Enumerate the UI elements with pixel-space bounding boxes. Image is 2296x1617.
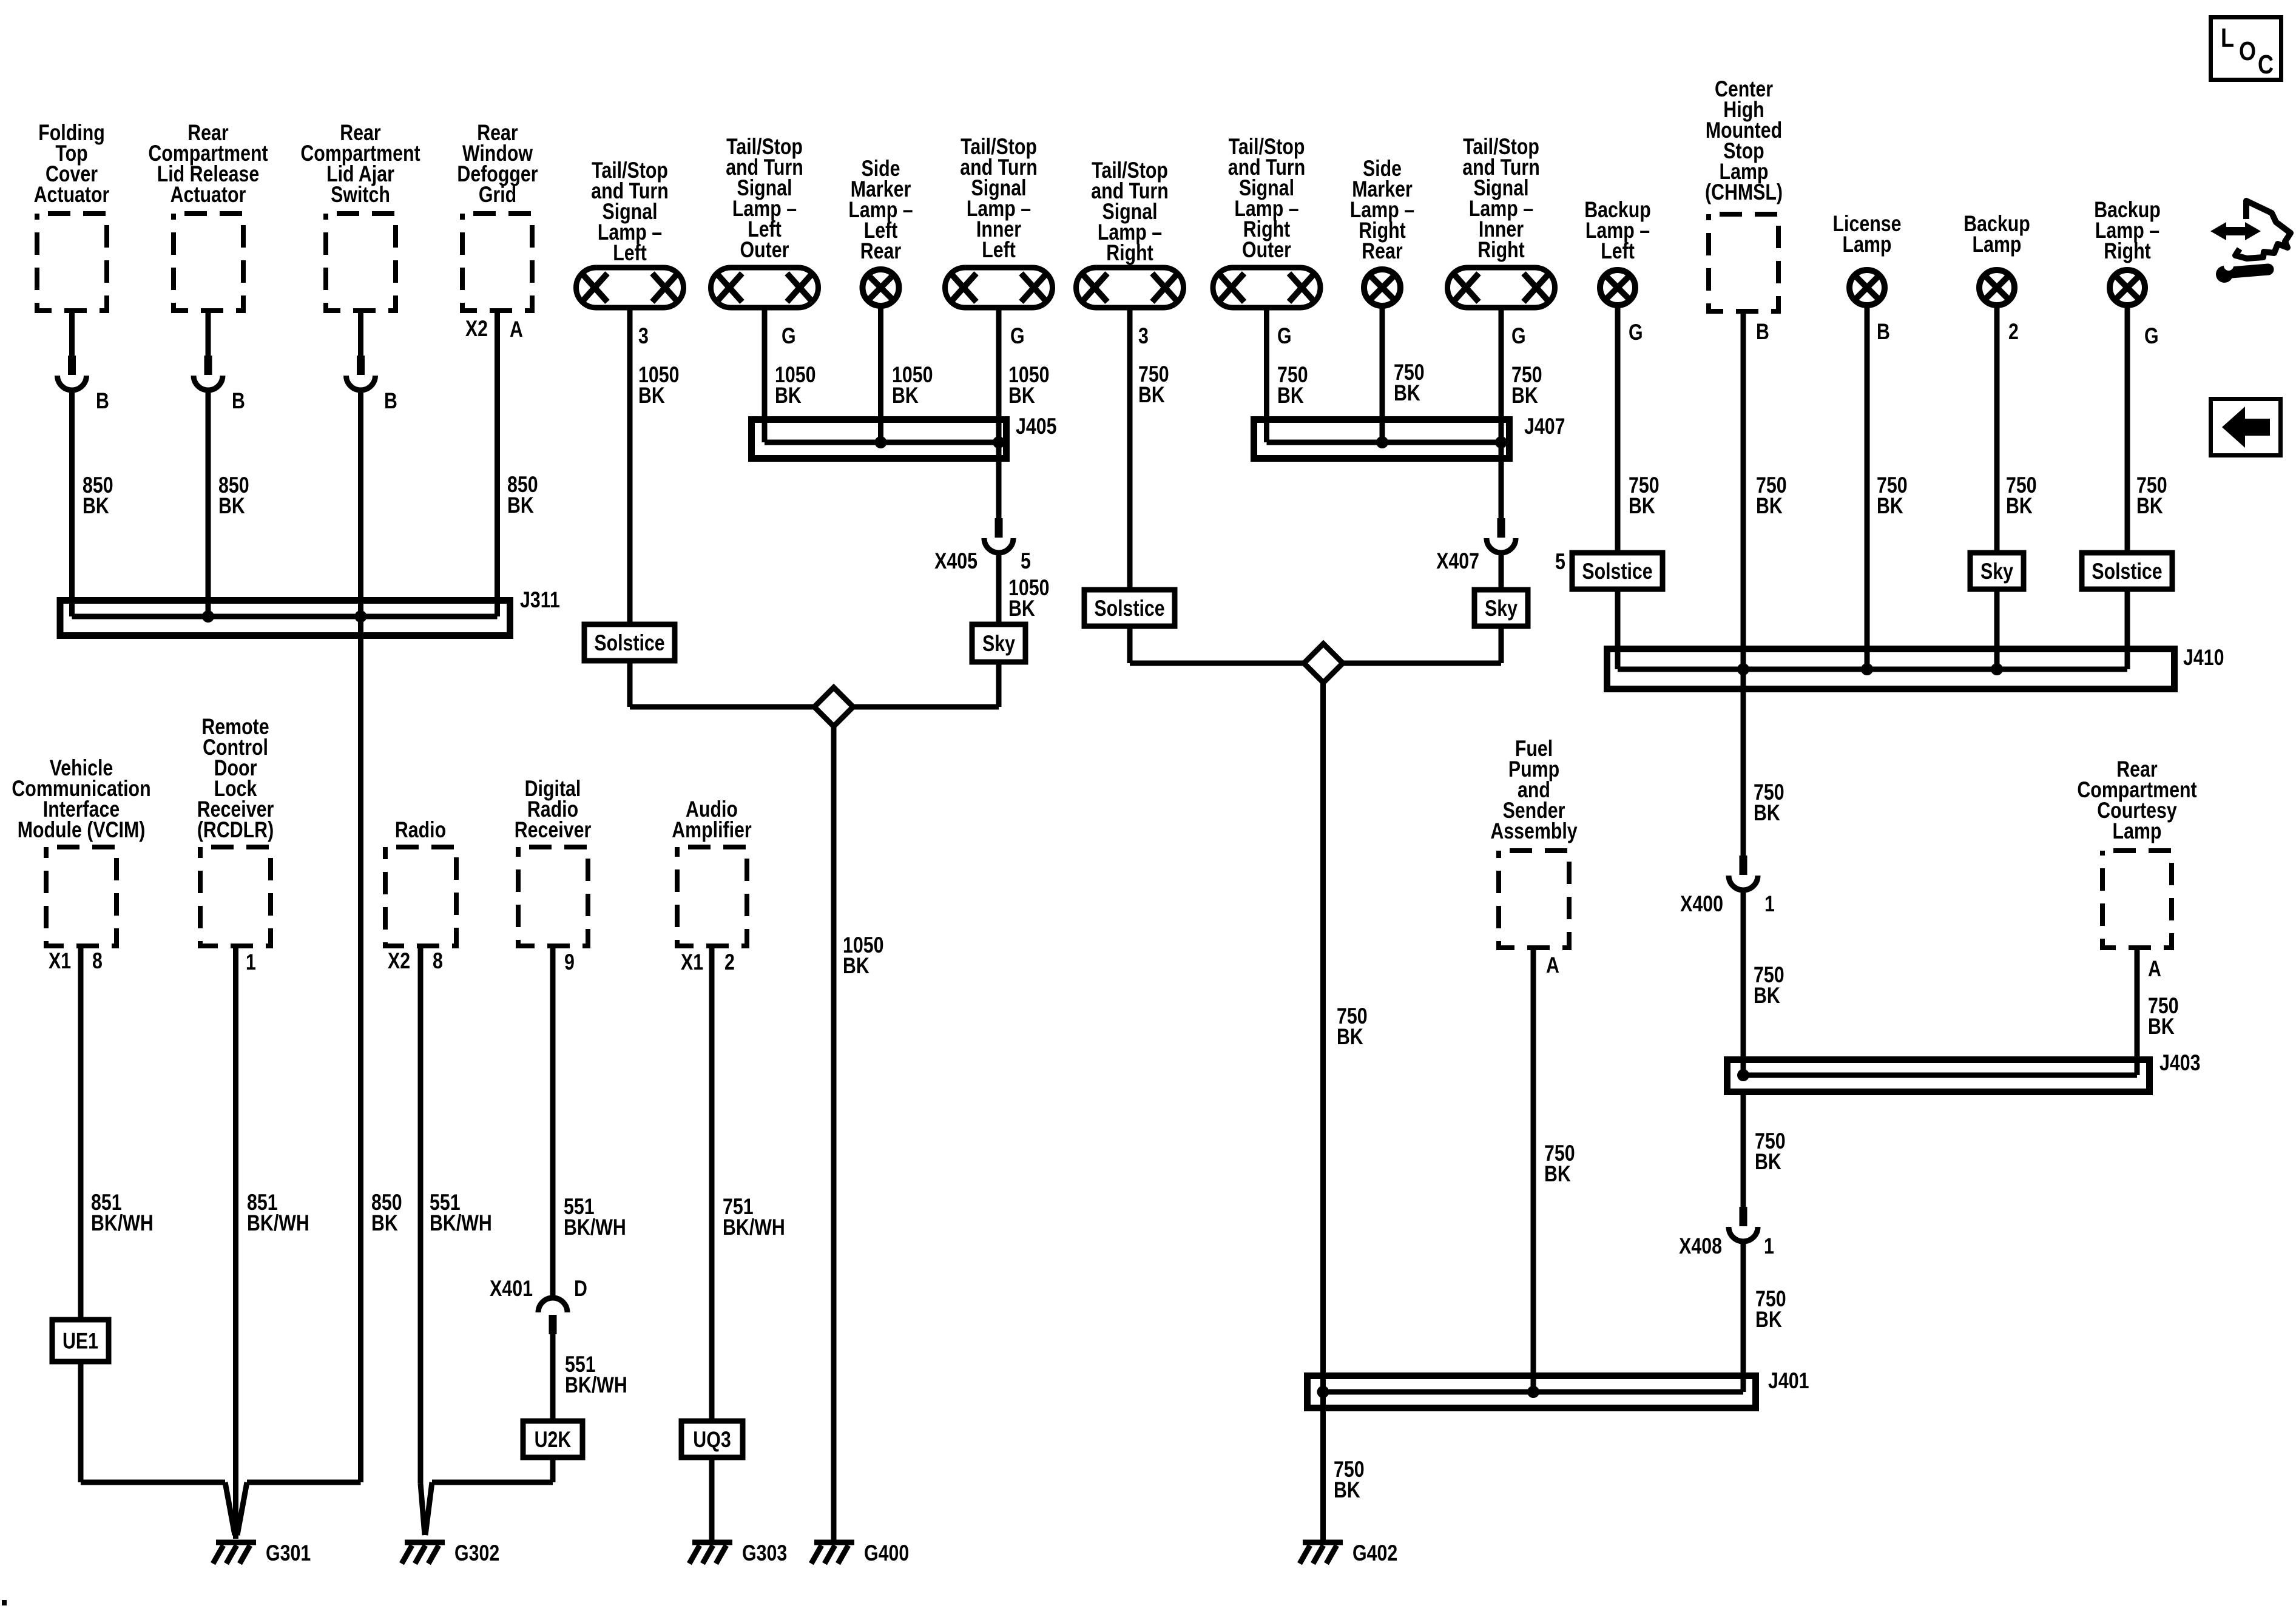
pin G (Inner Right) bbox=[1511, 323, 1526, 349]
wire: 850 BK from Rear Window Defogger Grid to J311 bbox=[498, 311, 538, 616]
svg-text:BK: BK bbox=[1334, 1477, 1360, 1503]
stray mark (bottom-left) bbox=[2, 1600, 7, 1605]
icon: left arrow box bbox=[2211, 399, 2281, 456]
junction bus J410 bbox=[1607, 645, 2224, 689]
pin 3 (Tail/Stop Lamp Left) bbox=[638, 323, 649, 349]
junction bus J401 bbox=[1308, 1368, 1809, 1408]
svg-text:Outer: Outer bbox=[740, 237, 789, 263]
svg-text:X1: X1 bbox=[681, 950, 703, 975]
wire: 750 BK from X408 to J401 bbox=[1743, 1241, 1786, 1392]
option box Sky (inner left lamp) bbox=[972, 624, 1025, 662]
pin labels X1 / 2 (Audio Amplifier) bbox=[681, 950, 735, 975]
svg-text:BK: BK bbox=[2136, 493, 2163, 519]
wire: 551 BK/WH from Digital Radio Receiver to X401 bbox=[553, 946, 626, 1298]
pin G (Right Outer) bbox=[1277, 323, 1292, 349]
component: Rear Window Defogger Grid bbox=[457, 120, 538, 311]
lamp: License Lamp bbox=[1833, 211, 1902, 305]
component: Remote Control Door Lock Receiver (RCDLR) bbox=[197, 714, 274, 946]
wire: 751 BK/WH from Audio Amplifier to UQ3 bbox=[712, 946, 785, 1421]
svg-text:Rear: Rear bbox=[1362, 238, 1402, 264]
node: J405 dot (inner left wire) bbox=[993, 436, 1005, 448]
node: J311 junction dot (Lid Ajar wire) bbox=[355, 610, 367, 623]
svg-text:5: 5 bbox=[1021, 549, 1031, 574]
svg-text:1: 1 bbox=[1764, 1234, 1774, 1259]
svg-text:Solstice: Solstice bbox=[1094, 596, 1164, 621]
wire: 750 BK from License Lamp to J410 bbox=[1867, 305, 1908, 669]
pin G (Backup Lamp Left) bbox=[1629, 320, 1643, 345]
svg-text:Rear: Rear bbox=[860, 238, 901, 264]
svg-text:BK: BK bbox=[1754, 983, 1780, 1008]
component: Radio bbox=[385, 817, 456, 946]
wire: 750 BK from Side Marker Right Rear to J407 bbox=[1382, 306, 1425, 442]
node: J401 dot (fuel pump wire) bbox=[1527, 1386, 1539, 1398]
svg-text:A: A bbox=[1546, 953, 1559, 978]
svg-text:BK/WH: BK/WH bbox=[91, 1210, 154, 1236]
svg-text:G400: G400 bbox=[864, 1541, 909, 1566]
pin labels X2 / A (Rear Window Defogger Grid) bbox=[465, 316, 523, 342]
svg-text:3: 3 bbox=[638, 323, 649, 349]
lamp: Side Marker Lamp - Left Rear bbox=[848, 156, 913, 306]
svg-text:Receiver: Receiver bbox=[515, 817, 591, 843]
svg-text:G: G bbox=[1629, 320, 1643, 345]
lamp: Tail/Stop and Turn Signal Lamp - Inner Left bbox=[945, 134, 1053, 308]
component: Digital Radio Receiver bbox=[515, 776, 591, 946]
wire: 1050 BK from Side Marker Left Rear to J405 bbox=[881, 306, 933, 442]
svg-text:BK: BK bbox=[1544, 1161, 1571, 1187]
pin labels X1 / 8 (VCIM) bbox=[49, 948, 103, 974]
pin G (Inner Left) bbox=[1010, 323, 1025, 349]
svg-text:Lamp: Lamp bbox=[1843, 232, 1892, 257]
wire: 850 BK from Lid Ajar Switch through J311 to G301 bbox=[237, 390, 402, 1535]
svg-text:Actuator: Actuator bbox=[34, 182, 110, 208]
svg-text:BK: BK bbox=[1756, 493, 1783, 519]
pin 1 (RCDLR) bbox=[246, 950, 256, 975]
svg-text:Sky: Sky bbox=[1485, 596, 1518, 621]
svg-text:B: B bbox=[1877, 319, 1890, 345]
in-line connector X401 pin D bbox=[490, 1276, 587, 1334]
node: J405 dot (side marker wire) bbox=[875, 436, 887, 448]
wire: 750 BK from Tail/Stop Lamp Right to Solstice option bbox=[1130, 310, 1169, 590]
svg-text:X2: X2 bbox=[388, 948, 410, 974]
svg-text:BK: BK bbox=[1511, 383, 1538, 408]
svg-text:J407: J407 bbox=[1524, 414, 1565, 439]
node: J410 dot (CHMSL wire) bbox=[1737, 663, 1749, 675]
wire: X407 to Sky option bbox=[1499, 553, 1504, 590]
svg-text:O: O bbox=[2239, 36, 2256, 66]
svg-text:9: 9 bbox=[564, 950, 575, 975]
wire: Rear Compartment Lid Release Actuator lead bbox=[206, 311, 211, 356]
svg-text:Lamp: Lamp bbox=[2113, 819, 2162, 844]
svg-text:BK/WH: BK/WH bbox=[565, 1372, 627, 1398]
wire: 750 BK from Fuel Pump to J401 bbox=[1533, 948, 1575, 1392]
wire: Folding Top Cover Actuator lead bbox=[69, 311, 75, 356]
svg-text:8: 8 bbox=[92, 948, 103, 974]
in-line connector X405 pin 5 bbox=[934, 518, 1031, 574]
svg-text:B: B bbox=[96, 388, 109, 414]
svg-text:(RCDLR): (RCDLR) bbox=[197, 817, 274, 843]
svg-text:J410: J410 bbox=[2183, 645, 2224, 670]
lamp: Tail/Stop and Turn Signal Lamp - Inner Right bbox=[1448, 134, 1555, 308]
svg-text:5: 5 bbox=[1555, 549, 1565, 575]
ground G301 bbox=[213, 1541, 311, 1566]
svg-text:B: B bbox=[384, 388, 397, 414]
option box Solstice (left tail lamp) bbox=[584, 624, 675, 661]
wire: 750 BK from Courtesy Lamp to J403 bbox=[2137, 948, 2179, 1075]
wire: 750 BK from Backup Lamp Right to Solstice option bbox=[2127, 305, 2167, 553]
svg-text:X408: X408 bbox=[1679, 1234, 1722, 1259]
svg-text:Solstice: Solstice bbox=[2092, 559, 2162, 584]
option box Solstice (backup lamp right) bbox=[2082, 553, 2172, 589]
wire: Sky option to splice diamond (right) bbox=[1343, 626, 1501, 663]
svg-text:BK: BK bbox=[1337, 1024, 1363, 1050]
ground G303 bbox=[689, 1541, 787, 1566]
svg-text:BK: BK bbox=[775, 383, 802, 408]
junction bus J403 bbox=[1727, 1050, 2201, 1092]
wire: 551 BK/WH from Radio to G302 bbox=[420, 946, 492, 1535]
component: Vehicle Communication Interface Module (VCIM) bbox=[12, 755, 150, 946]
lamp: Backup Lamp - Left bbox=[1584, 197, 1651, 305]
svg-text:BK: BK bbox=[507, 493, 534, 518]
svg-text:J405: J405 bbox=[1016, 414, 1056, 439]
svg-text:BK: BK bbox=[1629, 493, 1655, 519]
svg-text:G: G bbox=[782, 323, 796, 349]
svg-text:X1: X1 bbox=[49, 948, 71, 974]
node: J401 dot (diamond wire) bbox=[1317, 1386, 1329, 1398]
svg-text:X400: X400 bbox=[1680, 891, 1723, 917]
lamp: Backup Lamp - Right bbox=[2094, 197, 2161, 305]
svg-text:3: 3 bbox=[1138, 323, 1149, 349]
wire: 1050 BK from X405 to Sky option bbox=[999, 553, 1049, 624]
connector pin B (Rear Compartment Lid Ajar Switch) bbox=[346, 356, 397, 414]
wire: 750 BK from Inner Right lamp through J407 to X407 bbox=[1501, 310, 1542, 518]
svg-text:X2: X2 bbox=[465, 316, 488, 342]
svg-text:Right: Right bbox=[1477, 237, 1524, 263]
node: J407 dot (inner right wire) bbox=[1495, 436, 1507, 448]
svg-text:X405: X405 bbox=[934, 549, 977, 574]
svg-text:2: 2 bbox=[724, 950, 735, 975]
svg-text:Left: Left bbox=[1601, 238, 1635, 264]
option box UE1 bbox=[52, 1320, 109, 1362]
svg-text:Left: Left bbox=[613, 240, 647, 266]
svg-text:BK: BK bbox=[1277, 383, 1304, 408]
wire: 750 BK from right diamond through J401 to G402 bbox=[1323, 683, 1368, 1540]
svg-text:Right: Right bbox=[2104, 238, 2150, 264]
svg-text:Switch: Switch bbox=[331, 182, 390, 208]
pin 2 (Backup Lamp) bbox=[2008, 319, 2019, 345]
svg-text:Actuator: Actuator bbox=[171, 182, 246, 208]
in-line connector X408 pin 1 bbox=[1679, 1207, 1774, 1259]
lamp: Backup Lamp (middle) bbox=[1963, 211, 2030, 305]
in-line connector X407 pin 5 bbox=[1436, 518, 1565, 575]
wire: 850 BK from Lid Release Actuator to J311 bbox=[208, 390, 249, 616]
svg-text:Sky: Sky bbox=[982, 631, 1015, 657]
svg-text:G: G bbox=[2144, 323, 2159, 349]
pin B (CHMSL) bbox=[1756, 319, 1769, 345]
icon: body repair symbol (double arrow, body outline, wrench) bbox=[2210, 201, 2291, 283]
svg-text:G: G bbox=[1277, 323, 1292, 349]
lamp: Tail/Stop and Turn Signal Lamp - Right bbox=[1076, 158, 1184, 308]
svg-text:BK/WH: BK/WH bbox=[723, 1215, 785, 1240]
svg-text:BK: BK bbox=[1877, 493, 1903, 519]
svg-text:A: A bbox=[510, 317, 523, 342]
option box Solstice (right tail lamp) bbox=[1084, 590, 1175, 626]
svg-text:Left: Left bbox=[982, 237, 1016, 263]
svg-text:BK: BK bbox=[2148, 1014, 2175, 1039]
junction bus J405 bbox=[752, 414, 1057, 458]
svg-text:UE1: UE1 bbox=[62, 1329, 98, 1354]
node: J407 dot (side marker wire) bbox=[1376, 436, 1388, 448]
svg-text:(CHMSL): (CHMSL) bbox=[1705, 180, 1783, 205]
pin 9 (Digital Radio Receiver) bbox=[564, 950, 575, 975]
wire: Sky option to J410 (backup lamp) bbox=[1994, 589, 2000, 669]
svg-text:D: D bbox=[574, 1276, 587, 1301]
component: Rear Compartment Courtesy Lamp bbox=[2077, 757, 2196, 948]
wire: 551 BK/WH from X401 to U2K bbox=[553, 1334, 627, 1421]
svg-text:BK: BK bbox=[1138, 382, 1165, 408]
lamp: Tail/Stop and Turn Signal Lamp - Left bbox=[576, 158, 684, 308]
connector pin B (Rear Compartment Lid Release Actuator) bbox=[194, 356, 245, 414]
component: Rear Compartment Lid Release Actuator bbox=[148, 120, 268, 311]
component: Center High Mounted Stop Lamp (CHMSL) bbox=[1705, 76, 1783, 311]
svg-text:Outer: Outer bbox=[1242, 237, 1291, 263]
wire: 1050 BK from Inner Left lamp through J405 to X405 bbox=[999, 310, 1049, 518]
svg-text:U2K: U2K bbox=[535, 1427, 572, 1453]
pin G (Left Outer) bbox=[782, 323, 796, 349]
svg-text:B: B bbox=[232, 388, 245, 414]
component: Folding Top Cover Actuator bbox=[34, 120, 110, 311]
pin 3 (Tail/Stop Lamp Right) bbox=[1138, 323, 1149, 349]
wire: U2K to G302 bbox=[425, 1457, 553, 1535]
option box Sky (inner right lamp) bbox=[1474, 590, 1528, 626]
connector pin B (Folding Top Cover Actuator) bbox=[58, 356, 109, 414]
svg-text:BK/WH: BK/WH bbox=[247, 1210, 309, 1236]
svg-text:BK: BK bbox=[2006, 493, 2033, 519]
wire: Sky option to splice diamond (left) bbox=[853, 662, 999, 707]
svg-text:BK/WH: BK/WH bbox=[430, 1210, 492, 1236]
splice diamond (right group) bbox=[1304, 644, 1343, 683]
node: J403 dot (CHMSL wire) bbox=[1737, 1069, 1749, 1081]
svg-text:BK: BK bbox=[638, 383, 665, 408]
svg-text:BK/WH: BK/WH bbox=[564, 1215, 626, 1240]
svg-text:BK: BK bbox=[892, 383, 919, 408]
svg-text:BK: BK bbox=[1394, 380, 1420, 406]
junction bus J311 bbox=[60, 587, 560, 635]
svg-text:BK: BK bbox=[1755, 1149, 1781, 1175]
wire: 750 BK from CHMSL through J410 to X400 bbox=[1743, 311, 1787, 856]
svg-text:8: 8 bbox=[433, 948, 443, 974]
ground G402 bbox=[1300, 1541, 1397, 1566]
svg-text:G302: G302 bbox=[454, 1541, 499, 1566]
wire: 750 BK from Backup Lamp to Sky option bbox=[1997, 305, 2037, 553]
svg-text:Lamp: Lamp bbox=[1973, 232, 2022, 257]
wire: UE1 to G301 bbox=[81, 1362, 235, 1535]
svg-text:Solstice: Solstice bbox=[1582, 559, 1652, 584]
wire: 1050 BK from left diamond to G400 bbox=[834, 726, 883, 1540]
pin B (License Lamp) bbox=[1877, 319, 1890, 345]
wire: Solstice option to J410 (right end) bbox=[2125, 589, 2130, 669]
icon: LOC reference box bbox=[2211, 18, 2281, 80]
pin A (Rear Compartment Courtesy Lamp) bbox=[2148, 956, 2161, 982]
pin G (Backup Lamp Right) bbox=[2144, 323, 2159, 349]
option box U2K bbox=[523, 1421, 582, 1457]
svg-text:BK: BK bbox=[1755, 1307, 1782, 1332]
svg-text:BK: BK bbox=[371, 1210, 398, 1236]
svg-text:G303: G303 bbox=[742, 1541, 787, 1566]
svg-text:UQ3: UQ3 bbox=[693, 1427, 731, 1453]
svg-text:J403: J403 bbox=[2159, 1050, 2200, 1076]
node: J410 dot (backup lamp wire) bbox=[1991, 663, 2003, 675]
pin A (Fuel Pump and Sender Assembly) bbox=[1546, 953, 1559, 978]
wire: 750 BK from X400 to J403 bbox=[1743, 890, 1784, 1075]
svg-text:BK: BK bbox=[1008, 596, 1035, 621]
splice diamond (left group) bbox=[814, 687, 853, 726]
svg-text:X401: X401 bbox=[490, 1276, 533, 1301]
node: J410 dot (license lamp wire) bbox=[1861, 663, 1873, 675]
svg-text:G: G bbox=[1511, 323, 1526, 349]
option box UQ3 bbox=[681, 1421, 743, 1457]
svg-text:Grid: Grid bbox=[479, 182, 516, 208]
lamp: Tail/Stop and Turn Signal Lamp - Left Outer bbox=[711, 134, 819, 308]
component: Fuel Pump and Sender Assembly bbox=[1490, 736, 1577, 948]
wire: right tail lamp to splice diamond bbox=[1130, 626, 1304, 663]
ground G400 bbox=[811, 1541, 909, 1566]
svg-text:X407: X407 bbox=[1436, 549, 1479, 574]
option box Solstice (backup lamp left) bbox=[1572, 553, 1663, 589]
svg-text:G402: G402 bbox=[1352, 1541, 1397, 1566]
wire: 750 BK from Right Outer lamp to J407 bbox=[1267, 310, 1308, 442]
lamp: Tail/Stop and Turn Signal Lamp - Right Outer bbox=[1213, 134, 1320, 308]
wire: 850 BK from Folding Top Cover Actuator to J311 bbox=[72, 390, 113, 616]
wire: 750 BK from Backup Lamp Left to Solstice option bbox=[1618, 305, 1660, 553]
svg-text:C: C bbox=[2258, 50, 2274, 79]
wire: 750 BK from J403 to X408 bbox=[1743, 1095, 1786, 1207]
svg-text:L: L bbox=[2221, 23, 2234, 53]
svg-text:Module (VCIM): Module (VCIM) bbox=[18, 817, 146, 843]
ground G302 bbox=[402, 1541, 499, 1566]
wire: 1050 BK from Tail/Stop Lamp Left to Solstice option bbox=[630, 310, 679, 624]
wire: Solstice option to J410 bbox=[1615, 589, 1621, 669]
svg-text:BK: BK bbox=[218, 493, 245, 519]
lamp: Side Marker Lamp - Right Rear bbox=[1350, 156, 1414, 306]
option box Sky (backup lamp) bbox=[1970, 553, 2024, 589]
svg-text:BK: BK bbox=[1008, 383, 1035, 408]
wire: 1050 BK from Left Outer lamp to J405 bbox=[765, 310, 815, 442]
svg-text:Amplifier: Amplifier bbox=[672, 817, 751, 843]
svg-text:Radio: Radio bbox=[395, 817, 446, 843]
wire: Rear Compartment Lid Ajar Switch lead bbox=[358, 311, 363, 356]
in-line connector X400 pin 1 bbox=[1680, 856, 1775, 917]
svg-text:B: B bbox=[1756, 319, 1769, 345]
pin labels X2 / 8 (Radio) bbox=[388, 948, 443, 974]
svg-text:2: 2 bbox=[2008, 319, 2019, 345]
svg-text:G301: G301 bbox=[266, 1541, 311, 1566]
junction bus J407 bbox=[1254, 414, 1565, 458]
wire: left tail lamp to splice diamond bbox=[630, 661, 814, 707]
svg-text:Right: Right bbox=[1106, 240, 1153, 266]
wire: 851 BK/WH from RCDLR to G301 bbox=[236, 946, 309, 1539]
svg-text:1: 1 bbox=[246, 950, 256, 975]
wire: 851 BK/WH from VCIM to UE1 bbox=[81, 946, 154, 1320]
svg-text:G: G bbox=[1010, 323, 1025, 349]
node: J311 junction dot (Lid Release wire) bbox=[202, 610, 214, 623]
component: Rear Compartment Lid Ajar Switch bbox=[300, 120, 420, 311]
wire: UQ3 to G303 bbox=[709, 1457, 715, 1540]
svg-text:BK: BK bbox=[1754, 800, 1780, 826]
svg-text:1: 1 bbox=[1764, 891, 1775, 917]
component: Audio Amplifier bbox=[672, 797, 751, 946]
svg-text:Solstice: Solstice bbox=[594, 630, 664, 656]
svg-text:J401: J401 bbox=[1768, 1368, 1809, 1394]
svg-text:Assembly: Assembly bbox=[1490, 819, 1577, 844]
svg-text:Sky: Sky bbox=[1980, 559, 2013, 584]
svg-text:BK: BK bbox=[843, 953, 869, 979]
svg-text:A: A bbox=[2148, 956, 2161, 982]
svg-text:J311: J311 bbox=[520, 587, 560, 613]
svg-text:BK: BK bbox=[83, 493, 109, 519]
